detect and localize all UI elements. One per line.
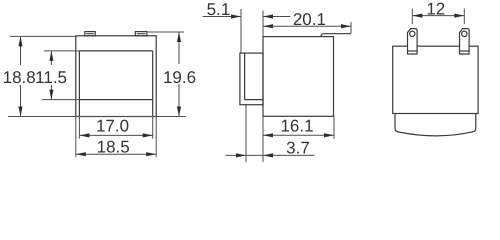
- svg-text:18.5: 18.5: [97, 137, 130, 156]
- dim 18.5 right extension line: [155, 117, 157, 158]
- dim 3.7 left-pointing arrow: [263, 153, 273, 157]
- dim 5.1 left extension line: [240, 9, 242, 53]
- front view inner panel right wall: [152, 51, 154, 117]
- dim 20.1 line: [263, 25, 351, 27]
- dim 12 left arrow: [412, 14, 422, 18]
- side view terminal hook: [321, 34, 351, 37]
- dim 5.1 line right tail: [263, 16, 290, 18]
- dim 20.1 right extension line: [350, 22, 352, 34]
- dim 17.0 left arrow: [79, 133, 89, 137]
- dim 12 left extension line: [411, 9, 413, 25]
- svg-text:11.5: 11.5: [35, 68, 67, 87]
- dim 18.8 down arrow: [18, 107, 22, 117]
- front view bottom extension line: [8, 116, 186, 118]
- dim 12 line: [412, 15, 464, 17]
- dim 11.5 down arrow: [49, 90, 53, 100]
- shared extension line below side view: [262, 116, 264, 162]
- dim 19.6 up arrow: [177, 32, 181, 42]
- dim 16.1 right arrow: [324, 133, 334, 137]
- dim 11.5 top extension line: [44, 50, 79, 52]
- dim 12 right extension line: [463, 9, 465, 25]
- dim 11.5 up arrow: [49, 51, 53, 61]
- dim 11.5 line upper: [50, 51, 52, 65]
- front view inner panel top edge: [79, 50, 152, 52]
- svg-text:16.1: 16.1: [280, 117, 313, 136]
- back view terminal lug 1 hole: [410, 31, 415, 36]
- dim 19.6 down arrow: [177, 107, 181, 117]
- dim 19.6 line lower: [178, 84, 180, 117]
- dim 18.8 line upper: [20, 36, 22, 65]
- side view bracket plate inner line: [244, 53, 246, 100]
- dim 11.5 line lower: [50, 85, 52, 100]
- front view label bottom edge: [79, 99, 152, 101]
- svg-text:12: 12: [426, 0, 445, 18]
- back view terminal lug 2: [460, 29, 470, 54]
- dim 5.1 right-pointing arrow: [231, 14, 241, 18]
- dim 16.1 line: [263, 134, 334, 136]
- dim 17.0 left extension line: [78, 117, 80, 139]
- dim 18.5 left extension line: [75, 117, 77, 158]
- front view terminal tab 1: [85, 32, 95, 36]
- svg-text:17.0: 17.0: [96, 117, 129, 136]
- dim 3.7 line: [226, 154, 315, 156]
- dim 20.1 right arrow: [341, 24, 351, 28]
- dim 16.1 left arrow: [263, 133, 273, 137]
- dim 16.1 right extension line: [333, 116, 335, 139]
- dim 18.5 left arrow: [76, 152, 86, 156]
- svg-text:3.7: 3.7: [286, 139, 310, 158]
- dim 17.0 right extension line: [152, 117, 154, 139]
- dim 18.5 right arrow: [146, 152, 156, 156]
- dim 5.1 left-pointing arrow: [263, 14, 273, 18]
- dim 17.0 right arrow: [143, 133, 153, 137]
- dim 5.1 line left tail: [203, 16, 242, 18]
- dim 17.0 line: [79, 134, 152, 136]
- dim 3.7 left extension line: [245, 105, 247, 162]
- svg-text:5.1: 5.1: [207, 0, 231, 19]
- svg-text:19.6: 19.6: [163, 68, 196, 87]
- back view body outline: [393, 46, 478, 113]
- side view body-face extension line upper: [262, 11, 264, 37]
- side view bracket inner bottom: [245, 99, 263, 101]
- dim 11.5 bottom extension line: [42, 99, 79, 101]
- dim 18.8 up arrow: [18, 36, 22, 46]
- dim 19.6 top extension line: [148, 31, 184, 33]
- dim 18.8 top extension line: [10, 35, 76, 37]
- back view terminal lug 1: [408, 29, 418, 54]
- front view inner panel left wall: [78, 51, 80, 117]
- side view body outline: [263, 37, 334, 117]
- dim 12 right arrow: [454, 14, 464, 18]
- side view mounting bracket outline: [240, 53, 263, 105]
- dim 19.6 line upper: [178, 32, 180, 64]
- back view terminal lug 2 hole: [462, 31, 467, 36]
- dim 20.1 left arrow: [263, 24, 273, 28]
- svg-text:18.8: 18.8: [3, 68, 36, 87]
- back view foot: [395, 114, 476, 136]
- svg-text:20.1: 20.1: [293, 10, 326, 29]
- dim 18.5 line: [76, 153, 156, 155]
- front view body outline: [76, 36, 156, 117]
- dim 3.7 right-pointing arrow: [236, 153, 246, 157]
- front view terminal tab 2: [135, 32, 147, 36]
- dim 18.8 line lower: [20, 85, 22, 117]
